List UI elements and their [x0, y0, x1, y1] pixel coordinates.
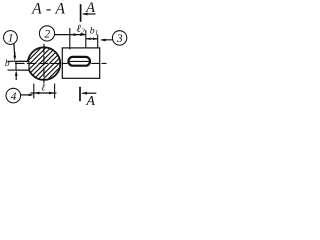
section arrow top — [83, 13, 96, 15]
svg-text:2: 2 — [44, 29, 50, 41]
balloon 1 — [3, 31, 17, 45]
ext line slot mid — [85, 30, 87, 49]
dim b ext top — [8, 60, 29, 62]
dim b arrow up — [15, 73, 17, 81]
dim l line — [31, 92, 57, 94]
centerline vertical — [43, 44, 45, 84]
leader 1 — [13, 44, 16, 58]
dim l ext right — [54, 84, 56, 99]
dim b1 arrows — [86, 38, 91, 41]
slot — [68, 57, 90, 66]
hatching — [14, 30, 80, 96]
dim b arrow down — [14, 52, 16, 58]
svg-text:b: b — [5, 59, 10, 69]
section cut line bottom — [79, 87, 81, 101]
dim b ext bottom — [8, 69, 29, 71]
ext line slot right — [97, 35, 99, 49]
svg-text:ℓ: ℓ — [41, 84, 45, 94]
plate rectangle — [62, 48, 99, 78]
shaft circle — [28, 47, 61, 80]
key — [16, 61, 29, 70]
dim l2 arrows — [70, 33, 75, 36]
dim b1 line — [86, 38, 98, 40]
svg-text:4: 4 — [11, 91, 17, 103]
svg-text:1: 1 — [8, 33, 14, 45]
leader 2 / dim l2 line — [54, 34, 85, 36]
svg-text:3: 3 — [116, 33, 123, 45]
section arrow bottom — [82, 92, 96, 94]
balloon 4 — [6, 88, 21, 103]
dim l ext left — [33, 84, 35, 99]
leader 4 — [21, 94, 32, 96]
ext line slot left — [69, 28, 71, 50]
svg-text:A: A — [85, 94, 95, 109]
svg-text:A - A: A - A — [31, 1, 65, 18]
section cut line top — [80, 4, 82, 22]
balloon 2 — [39, 26, 54, 41]
dim l arrows — [34, 92, 39, 95]
balloon 3 — [112, 31, 126, 45]
centerline horizontal left — [15, 62, 68, 64]
svg-text:A: A — [85, 0, 95, 16]
slot axis line — [69, 60, 91, 62]
centerline horizontal right — [91, 62, 106, 64]
leader 3 — [102, 39, 113, 41]
